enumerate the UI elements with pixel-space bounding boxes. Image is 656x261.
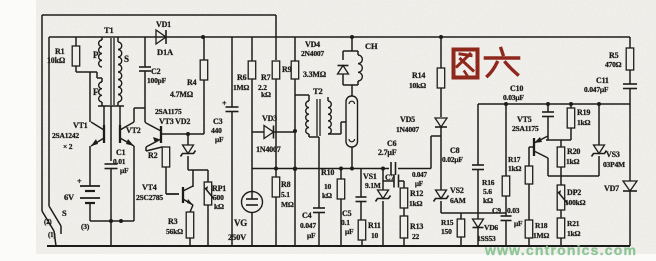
- resistor R13: [400, 216, 408, 246]
- label C8: [442, 146, 463, 164]
- wire box top: [478, 103, 630, 105]
- label R19: [577, 108, 591, 127]
- label R5: [605, 51, 622, 69]
- label VG volts: [228, 232, 247, 242]
- resistor R21: [557, 218, 565, 246]
- diode VD1: [156, 30, 166, 44]
- resistor R16: [502, 104, 510, 216]
- label R12: [409, 189, 423, 208]
- label R2: [148, 151, 158, 160]
- wire R9-T2: [295, 95, 309, 131]
- transformer T1 primary P: [99, 37, 102, 67]
- label (3): [81, 222, 90, 231]
- resistor R6: [248, 37, 256, 132]
- label VT5: [512, 115, 539, 133]
- label VS3: [603, 150, 625, 169]
- resistor R2: [162, 147, 179, 194]
- wire low bus: [441, 212, 506, 214]
- label VD6 type: [477, 234, 496, 243]
- diode VS2 zener: [434, 190, 449, 213]
- label R6: [233, 73, 249, 92]
- transistor VT3: [146, 123, 161, 147]
- wire VT3 collector: [145, 122, 146, 123]
- resistor R11: [358, 220, 366, 246]
- inductor CH: [358, 51, 362, 85]
- diode VD5: [435, 118, 447, 190]
- capacitor C1: [105, 164, 118, 246]
- transformer T1 feedback F: [99, 78, 102, 106]
- label R21: [567, 219, 581, 238]
- label VD1: [156, 20, 171, 29]
- label R17: [508, 155, 522, 173]
- title tu-liu (figure six): [454, 49, 519, 78]
- label R4: [170, 78, 197, 99]
- node VT4-return: [119, 219, 123, 223]
- resistor R18: [525, 220, 533, 246]
- label R20: [566, 147, 580, 166]
- diode VD4 choke block: [338, 37, 359, 96]
- label S switch: [62, 208, 67, 218]
- transformer T2 secondary: [328, 97, 331, 134]
- wire VT1 emitter: [89, 146, 91, 182]
- label (1): [48, 231, 56, 239]
- capacitor C8: [472, 165, 484, 213]
- label R3: [166, 217, 183, 236]
- node box-R19: [569, 102, 573, 106]
- resistor R14: [437, 37, 445, 117]
- wire VT2 emitter: [133, 146, 135, 221]
- label R9: [282, 65, 327, 79]
- resistor R17: [525, 166, 533, 220]
- watermark: [484, 242, 637, 258]
- wire VS3 bottom: [561, 175, 599, 177]
- label R8: [281, 180, 294, 209]
- battery B1: [80, 182, 100, 221]
- label R7: [258, 73, 271, 99]
- label C7 value: [412, 171, 427, 188]
- node bus dots: [274, 167, 385, 171]
- label VT4: [142, 183, 157, 192]
- node rail-R4: [201, 35, 205, 39]
- transformer T2 primary: [306, 95, 319, 137]
- wire VT1 collector: [89, 72, 91, 122]
- label VT4 type: [136, 193, 163, 202]
- transistor VT1: [91, 122, 104, 146]
- label R14: [409, 71, 426, 90]
- wire VT3 base: [161, 132, 204, 136]
- resistor R7: [272, 61, 280, 169]
- wire VG bus: [252, 168, 431, 170]
- label C1: [113, 148, 129, 175]
- wire top rail: [49, 36, 630, 38]
- label T2: [313, 86, 323, 96]
- label RP1: [212, 184, 226, 211]
- diode VD7: [623, 181, 637, 246]
- wire VG bottom: [251, 213, 253, 247]
- label VS2: [450, 186, 466, 205]
- wire VT4 base: [166, 193, 179, 195]
- label VD3 type: [256, 145, 281, 154]
- resistor R8: [272, 169, 280, 246]
- label VG: [234, 218, 247, 228]
- label VD4: [301, 40, 324, 58]
- label (2): [44, 218, 52, 226]
- label VT3 type: [155, 107, 182, 116]
- label C7: [385, 173, 395, 182]
- label F: [93, 87, 99, 97]
- label T1: [104, 25, 114, 35]
- label R18: [533, 221, 549, 240]
- resistor R12: [400, 188, 408, 216]
- label C3 plus: [222, 99, 227, 108]
- label VT1: [73, 121, 88, 130]
- transformer T1 core: [111, 38, 114, 105]
- label C9: [492, 206, 523, 228]
- resistor R1: [72, 37, 80, 72]
- label VT1 x2: [63, 142, 73, 151]
- diode VS1 zener: [376, 169, 391, 247]
- wire VD5-C6: [431, 136, 441, 169]
- wire VT3 emitter: [146, 147, 162, 151]
- label VT2: [126, 126, 141, 135]
- fluorescent lamp tube: [346, 96, 358, 147]
- resistor R9: [291, 37, 299, 95]
- plug S: [42, 206, 61, 246]
- resistor R5: [626, 48, 634, 84]
- label VT3 VD2: [159, 117, 190, 126]
- label C11: [584, 76, 609, 94]
- transformer T1 secondary S: [118, 37, 122, 106]
- resistor R20: [557, 140, 565, 185]
- diode VD2 zener: [181, 134, 196, 170]
- wire winding bus: [98, 106, 124, 161]
- transistor VT2: [120, 122, 134, 146]
- wire right frame upper: [629, 37, 631, 48]
- resistor R10: [337, 169, 345, 247]
- capacitor C2: [139, 37, 151, 122]
- node VD3 right: [293, 129, 297, 133]
- label VD6: [484, 223, 498, 232]
- wire emitter node: [546, 136, 571, 140]
- label VS1: [363, 172, 381, 190]
- potentiometer RP1: [204, 170, 214, 246]
- resistor R15: [457, 213, 465, 246]
- diode VD6: [473, 213, 484, 246]
- wire VG top: [251, 132, 253, 191]
- label R16: [482, 178, 495, 205]
- potentiometer DP2: [557, 185, 568, 218]
- transformer T2 core: [317, 99, 320, 136]
- node C1-return: [109, 219, 113, 223]
- capacitor C9: [501, 216, 512, 246]
- wire box left: [477, 104, 479, 165]
- label R10: [321, 168, 334, 200]
- node VD4 rail: [350, 35, 354, 39]
- wire VT5 collector: [548, 158, 561, 176]
- capacitor C4: [313, 208, 325, 246]
- transistor VT5: [534, 136, 548, 158]
- node box-C10: [546, 102, 550, 106]
- label R13: [410, 222, 423, 241]
- wire lamp bottom: [351, 147, 353, 169]
- label 6V: [64, 192, 75, 202]
- label C5: [341, 209, 354, 236]
- label R1: [47, 47, 66, 65]
- label battery plus: [77, 177, 82, 186]
- label VD3: [262, 114, 277, 123]
- wire VT2 collector: [134, 108, 145, 122]
- label CH: [365, 41, 378, 51]
- wire RP1 top: [193, 169, 208, 171]
- label D1A: [157, 47, 174, 57]
- node VG bus: [293, 167, 297, 171]
- capacitor C10: [542, 104, 554, 136]
- wire R1 bottom: [76, 72, 102, 78]
- resistor R4: [200, 37, 208, 134]
- label C6: [378, 139, 397, 157]
- wire left frame: [41, 15, 43, 211]
- label VT1 type: [52, 131, 79, 140]
- label C4: [300, 211, 316, 240]
- node box-VS3: [597, 102, 601, 106]
- wire feedback vertical: [275, 15, 277, 60]
- label P: [93, 50, 99, 60]
- wire VT5 base: [529, 147, 534, 166]
- wire T2-C4: [318, 137, 320, 208]
- wire bottom rail: [47, 245, 630, 247]
- node R14 rail: [439, 35, 443, 39]
- capacitor C6: [391, 162, 396, 175]
- wire mid vertical: [294, 131, 296, 246]
- wire T2 heater hook: [330, 122, 346, 134]
- wire top frame: [42, 14, 276, 16]
- label S: [124, 54, 129, 64]
- label VD5: [396, 115, 419, 134]
- node box-R16: [504, 102, 508, 106]
- glow lamp VG: [242, 192, 263, 213]
- resistor R3: [186, 205, 194, 246]
- wire VD2-VT4: [188, 170, 193, 187]
- label C10: [503, 84, 524, 102]
- capacitor C3: [226, 37, 239, 246]
- diode VS3 zener: [592, 104, 607, 176]
- capacitor C11: [623, 84, 637, 181]
- capacitor C7: [383, 175, 404, 189]
- label C3: [211, 117, 224, 144]
- wire inner left vertical: [48, 37, 50, 206]
- transistor VT4: [183, 186, 193, 205]
- label VD7: [604, 184, 619, 193]
- resistor R19: [567, 104, 575, 140]
- capacitor C5: [356, 169, 367, 221]
- label DP2: [565, 188, 586, 207]
- wire battery return: [90, 220, 134, 222]
- label R15: [441, 218, 454, 236]
- label C2: [147, 67, 167, 85]
- diode VD3: [252, 126, 295, 139]
- label R11: [368, 221, 381, 240]
